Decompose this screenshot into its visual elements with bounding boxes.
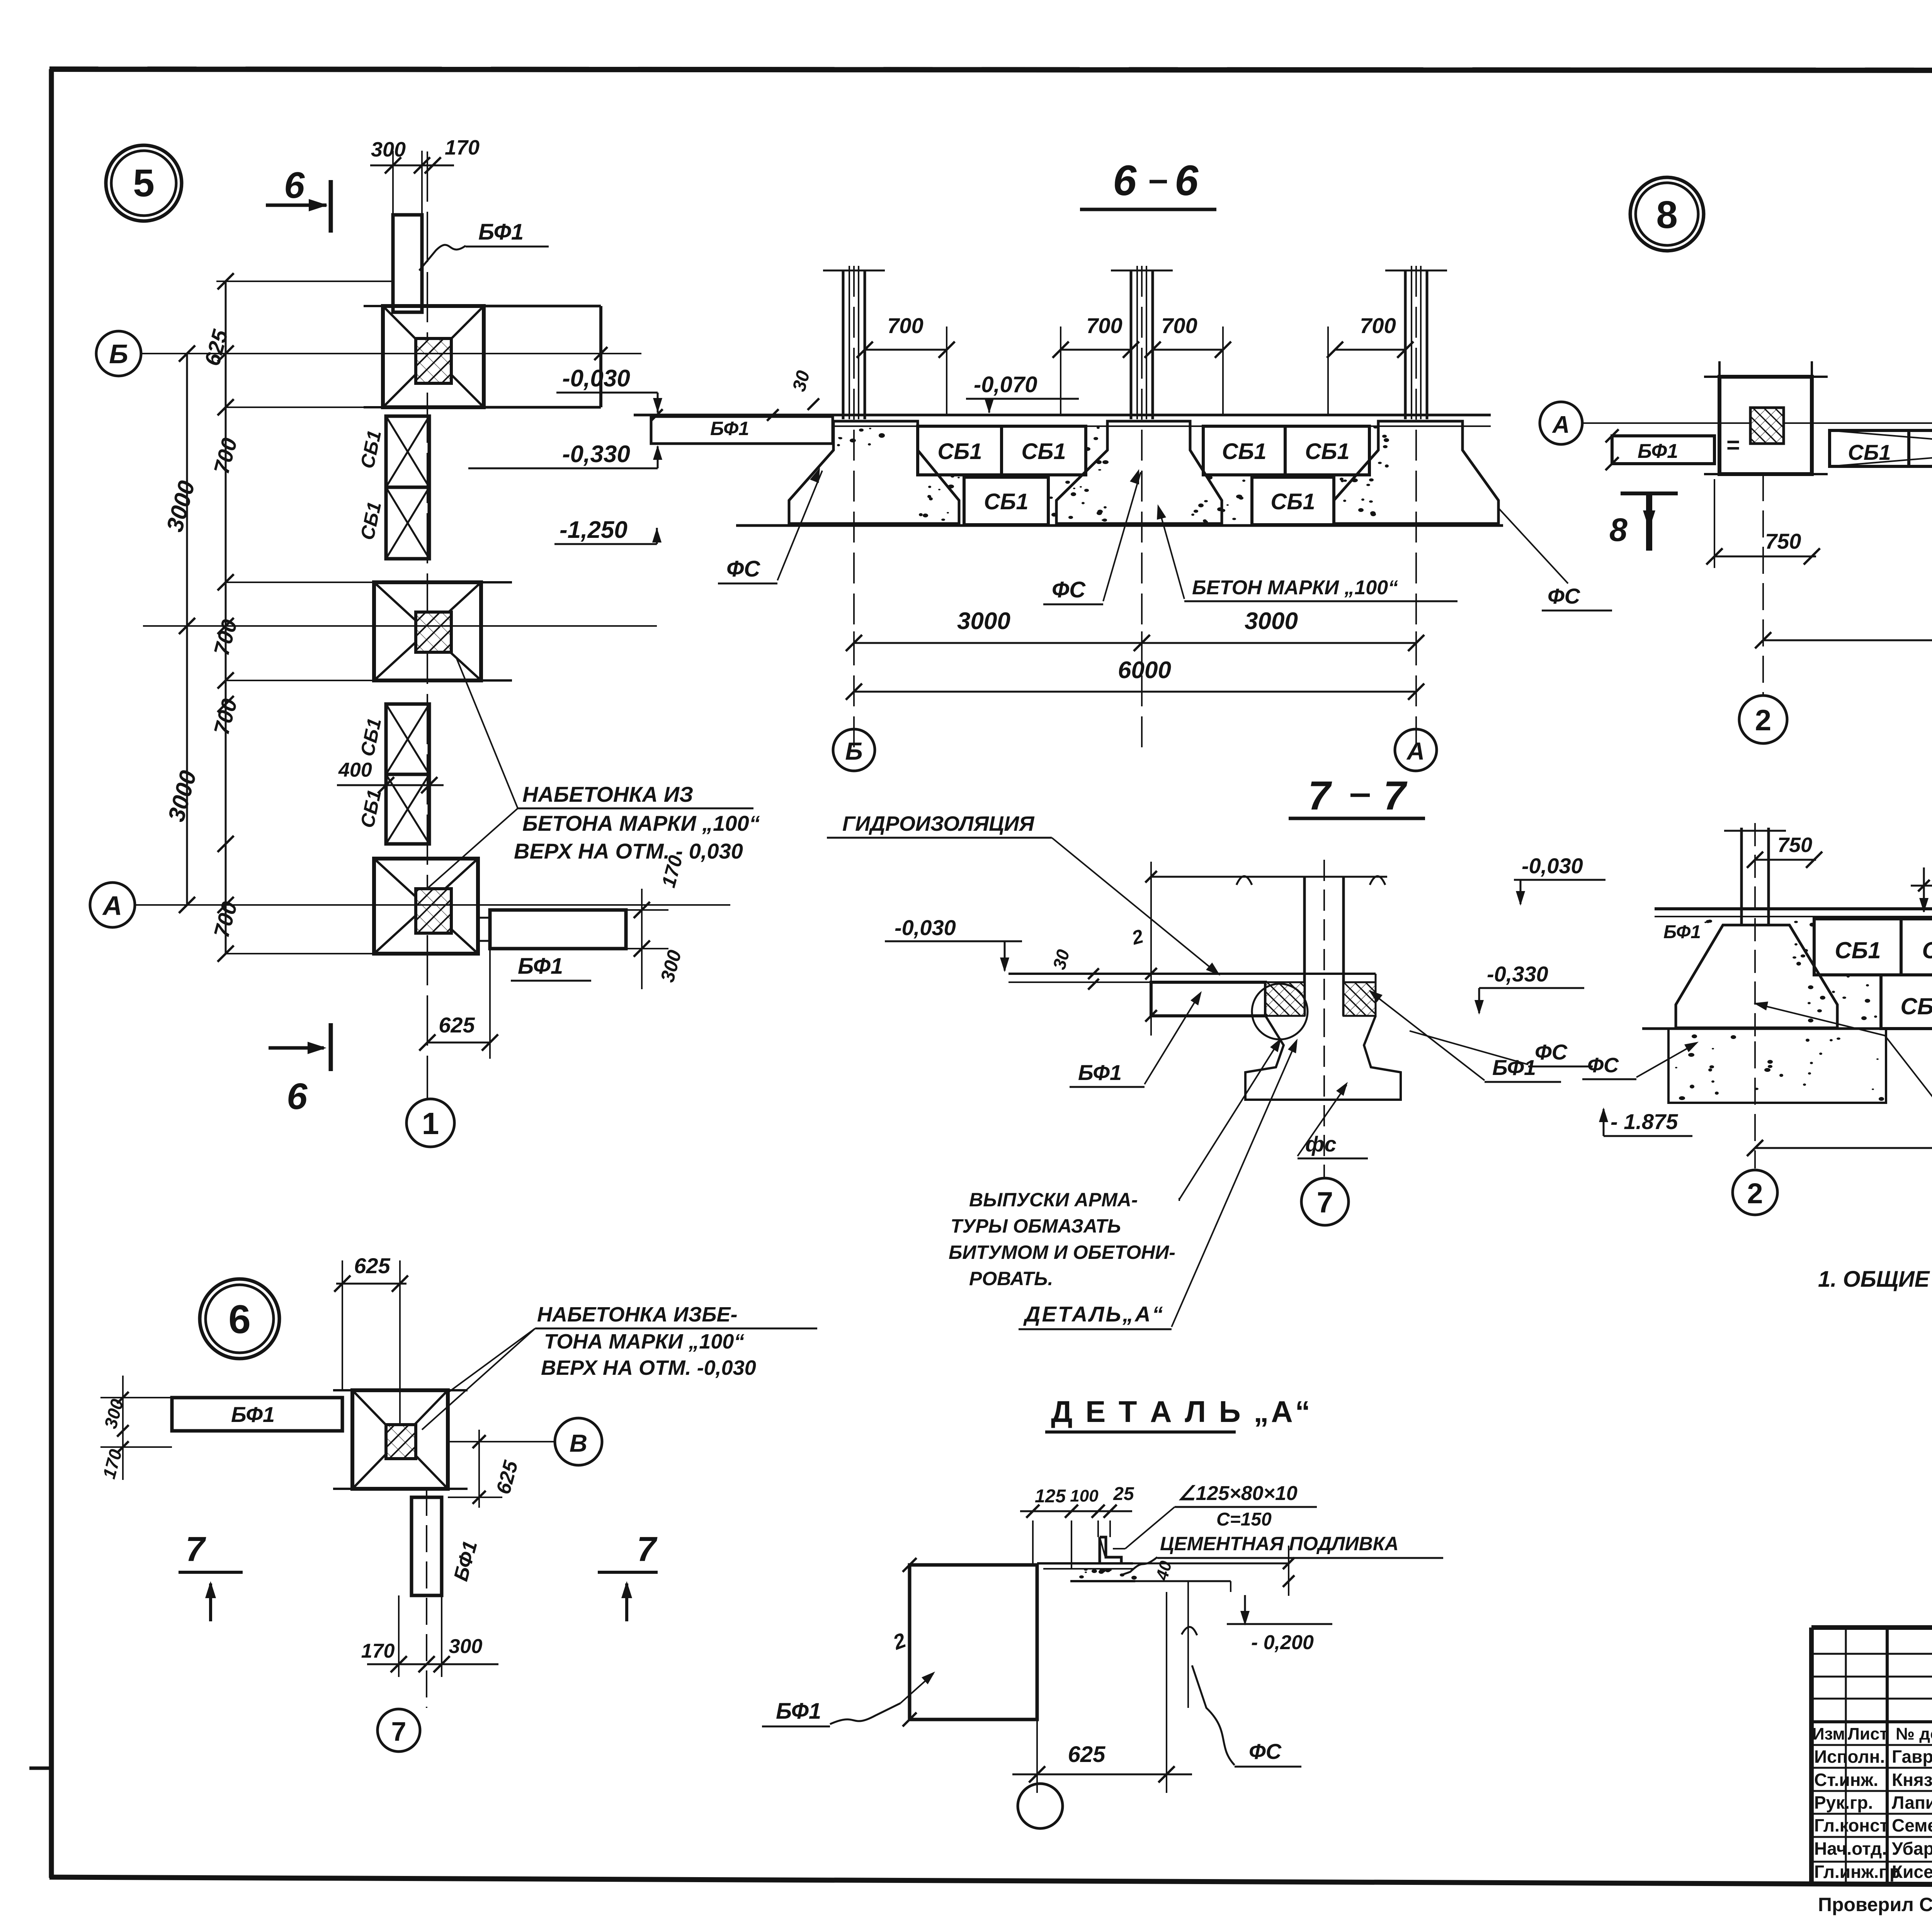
- svg-text:6000: 6000: [1118, 657, 1171, 684]
- svg-text:БФ1: БФ1: [1663, 922, 1701, 942]
- svg-text:БИТУМОМ И ОБЕТОНИ-: БИТУМОМ И ОБЕТОНИ-: [949, 1242, 1175, 1263]
- svg-text:300: 300: [371, 138, 406, 161]
- svg-text:СБ1: СБ1: [1900, 993, 1932, 1019]
- svg-text:400: 400: [338, 759, 372, 781]
- svg-text:6: 6: [1113, 157, 1137, 204]
- svg-text:6: 6: [284, 165, 305, 206]
- svg-text:700: 700: [1161, 313, 1197, 338]
- svg-text:700: 700: [887, 313, 923, 338]
- svg-text:-0,330: -0,330: [1487, 962, 1548, 986]
- svg-text:7: 7: [391, 1716, 406, 1747]
- svg-text:БФ1: БФ1: [1078, 1060, 1122, 1085]
- svg-text:170: 170: [361, 1640, 395, 1662]
- svg-text:Убариев: Убариев: [1892, 1838, 1932, 1859]
- svg-text:НАБЕТОНКА ИЗБЕ-: НАБЕТОНКА ИЗБЕ-: [537, 1303, 737, 1326]
- svg-text:Семенов: Семенов: [1892, 1815, 1932, 1835]
- svg-text:5: 5: [133, 162, 155, 205]
- svg-text:ЦЕМЕНТНАЯ ПОДЛИВКА: ЦЕМЕНТНАЯ ПОДЛИВКА: [1160, 1533, 1399, 1554]
- svg-text:25: 25: [1113, 1484, 1134, 1504]
- svg-text:6: 6: [228, 1297, 251, 1342]
- svg-text:Нач.отд.: Нач.отд.: [1814, 1838, 1887, 1859]
- svg-text:ТОНА МАРКИ „100“: ТОНА МАРКИ „100“: [544, 1330, 744, 1353]
- svg-text:Гл.конст: Гл.конст: [1814, 1815, 1888, 1835]
- svg-text:-0,030: -0,030: [895, 915, 956, 940]
- svg-text:В: В: [570, 1429, 587, 1457]
- svg-text:ФС: ФС: [726, 556, 760, 582]
- svg-text:ТУРЫ ОБМАЗАТЬ: ТУРЫ ОБМАЗАТЬ: [951, 1215, 1121, 1237]
- svg-text:БФ1: БФ1: [710, 418, 749, 439]
- svg-text:170: 170: [445, 136, 480, 159]
- svg-text:625: 625: [1068, 1742, 1106, 1767]
- svg-text:8: 8: [1656, 193, 1678, 236]
- svg-text:Гаврилова: Гаврилова: [1892, 1747, 1932, 1767]
- svg-text:ВЫПУСКИ АРМА-: ВЫПУСКИ АРМА-: [969, 1189, 1138, 1211]
- svg-text:- 0,200: - 0,200: [1251, 1631, 1314, 1654]
- svg-text:7: 7: [1317, 1186, 1333, 1219]
- svg-text:Лапина: Лапина: [1892, 1793, 1932, 1813]
- svg-text:Б: Б: [845, 737, 862, 765]
- svg-text:100: 100: [1070, 1486, 1099, 1505]
- svg-text:7: 7: [1308, 773, 1332, 818]
- svg-text:Гл.инж.пр: Гл.инж.пр: [1814, 1862, 1900, 1882]
- svg-text:ВЕРХ НА ОТМ. - 0,030: ВЕРХ НА ОТМ. - 0,030: [514, 839, 743, 863]
- svg-text:8: 8: [1609, 512, 1628, 548]
- svg-text:ФС: ФС: [1052, 577, 1086, 602]
- svg-text:Исполн.: Исполн.: [1814, 1747, 1885, 1767]
- svg-text:фс: фс: [1305, 1132, 1337, 1156]
- svg-text:А: А: [1552, 412, 1570, 438]
- svg-text:Б: Б: [109, 339, 128, 369]
- svg-text:ДЕТАЛЬ„А“: ДЕТАЛЬ„А“: [1023, 1302, 1165, 1326]
- svg-text:СБ1: СБ1: [1922, 937, 1932, 963]
- svg-text:ФС: ФС: [1535, 1040, 1568, 1064]
- svg-text:ГИДРОИЗОЛЯЦИЯ: ГИДРОИЗОЛЯЦИЯ: [842, 812, 1035, 835]
- svg-text:СБ1: СБ1: [1222, 439, 1266, 464]
- svg-text:СБ1: СБ1: [984, 489, 1028, 514]
- svg-text:ФС: ФС: [1587, 1054, 1619, 1077]
- svg-text:2: 2: [1755, 704, 1771, 737]
- svg-text:Киселева: Киселева: [1892, 1862, 1932, 1882]
- svg-text:А: А: [1406, 737, 1425, 765]
- svg-text:750: 750: [1777, 833, 1812, 857]
- svg-text:СБ1: СБ1: [1848, 440, 1891, 464]
- svg-text:7: 7: [185, 1530, 206, 1569]
- svg-text:625: 625: [354, 1253, 390, 1278]
- svg-text:Д Е Т А Л Ь „А“: Д Е Т А Л Ь „А“: [1051, 1395, 1313, 1429]
- svg-text:Ст.инж.: Ст.инж.: [1814, 1770, 1878, 1790]
- svg-text:6: 6: [287, 1076, 308, 1117]
- svg-text:- 1.875: - 1.875: [1611, 1109, 1678, 1134]
- svg-text:С=150: С=150: [1216, 1509, 1272, 1530]
- svg-text:1: 1: [422, 1106, 439, 1141]
- svg-text:Князева: Князева: [1892, 1770, 1932, 1790]
- svg-text:6: 6: [1175, 157, 1199, 204]
- svg-text:СБ1: СБ1: [1835, 937, 1881, 963]
- svg-text:БФ1: БФ1: [776, 1699, 821, 1724]
- svg-text:7: 7: [1383, 773, 1408, 818]
- svg-text:Изм: Изм: [1812, 1725, 1845, 1743]
- svg-text:БЕТОНА МАРКИ „100“: БЕТОНА МАРКИ „100“: [522, 811, 760, 835]
- svg-text:∠125×80×10: ∠125×80×10: [1178, 1482, 1298, 1505]
- svg-text:125: 125: [1035, 1486, 1066, 1507]
- svg-text:РОВАТЬ.: РОВАТЬ.: [969, 1268, 1053, 1289]
- svg-text:750: 750: [1765, 529, 1801, 553]
- svg-text:700: 700: [1360, 313, 1396, 338]
- svg-text:БЕТОН МАРКИ „100“: БЕТОН МАРКИ „100“: [1192, 577, 1398, 599]
- svg-text:Рук.гр.: Рук.гр.: [1814, 1793, 1873, 1813]
- svg-text:НАБЕТОНКА ИЗ: НАБЕТОНКА ИЗ: [522, 782, 693, 806]
- svg-text:А: А: [102, 891, 122, 921]
- svg-text:СБ1: СБ1: [1305, 439, 1349, 464]
- svg-text:СБ1: СБ1: [1270, 489, 1315, 514]
- svg-text:=: =: [1726, 432, 1740, 458]
- svg-text:-1,250: -1,250: [560, 517, 628, 543]
- svg-text:-0,070: -0,070: [974, 372, 1037, 397]
- svg-text:СБ1: СБ1: [1021, 439, 1066, 464]
- svg-text:Лист: Лист: [1848, 1725, 1888, 1743]
- svg-text:БФ1: БФ1: [518, 954, 563, 979]
- svg-text:ВЕРХ НА ОТМ. -0,030: ВЕРХ НА ОТМ. -0,030: [541, 1356, 756, 1379]
- svg-text:Проверил Симановская: Проверил Симановская: [1818, 1894, 1932, 1915]
- svg-text:1. ОБЩИЕ УКАЗАНИЯ СМ. ЛИСТ: 1. ОБЩИЕ УКАЗАНИЯ СМ. ЛИСТ КЖ-Ч.: [1818, 1267, 1932, 1292]
- svg-text:2: 2: [1747, 1177, 1763, 1209]
- svg-text:-0,030: -0,030: [1522, 854, 1583, 878]
- svg-text:БФ1: БФ1: [231, 1402, 275, 1427]
- svg-text:БФ1: БФ1: [1638, 440, 1678, 463]
- svg-text:-0,030: -0,030: [562, 365, 630, 392]
- svg-text:300: 300: [449, 1635, 483, 1658]
- svg-text:БФ1: БФ1: [478, 219, 524, 245]
- svg-text:3000: 3000: [1245, 608, 1298, 634]
- svg-text:СБ1: СБ1: [937, 439, 982, 464]
- svg-text:625: 625: [439, 1013, 475, 1037]
- svg-text:ФС: ФС: [1249, 1739, 1282, 1764]
- svg-text:3000: 3000: [957, 608, 1010, 634]
- svg-text:ФС: ФС: [1548, 584, 1581, 608]
- svg-text:-0,330: -0,330: [562, 441, 630, 468]
- svg-text:700: 700: [1086, 313, 1122, 338]
- svg-text:№ докум.: № докум.: [1896, 1725, 1932, 1743]
- svg-text:7: 7: [637, 1530, 658, 1569]
